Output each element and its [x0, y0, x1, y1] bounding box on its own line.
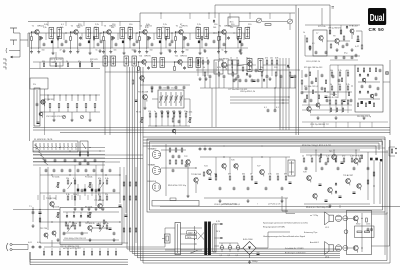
wire drop6 — [87, 195, 89, 200]
capacitor C11 — [213, 40, 216, 44]
label row2b — [90, 59, 98, 61]
ground G-t15 — [144, 106, 147, 110]
switch contact K9 — [67, 143, 69, 149]
label P6 — [136, 112, 141, 114]
capacitor C67 — [45, 169, 48, 173]
junction J21 — [69, 174, 70, 175]
bus wire V3 — [285, 58, 287, 130]
svg-text:0,3: 0,3 — [236, 255, 239, 257]
transistor T28 — [307, 175, 312, 182]
diode D-out1 — [335, 182, 337, 185]
wire left vertical — [29, 33, 31, 141]
wire sp top — [339, 205, 341, 208]
label trafo — [186, 231, 197, 239]
svg-text:T21 BC109: T21 BC109 — [94, 200, 105, 202]
label L26 — [228, 174, 231, 176]
wire bend2 — [286, 198, 295, 214]
resistor R49 — [269, 176, 271, 180]
capacitor C45 — [233, 79, 236, 83]
svg-text:150: 150 — [150, 50, 153, 52]
label topband 8 — [179, 27, 182, 29]
label L43 — [230, 58, 232, 60]
variable capacitor CV2 — [164, 92, 168, 106]
label L59 — [114, 50, 117, 52]
svg-text:1,5k: 1,5k — [43, 27, 47, 29]
svg-text:1k: 1k — [303, 32, 305, 34]
label BF194 — [181, 56, 188, 58]
note line 2 — [263, 227, 285, 229]
transistor T20 — [50, 202, 54, 209]
capacitor C20 — [63, 189, 66, 193]
switch contact K24 — [43, 159, 47, 162]
label afc3 — [303, 32, 315, 45]
wire dec2 gnd bus — [204, 197, 288, 199]
terminal mark — [332, 7, 335, 9]
resistor R36 — [74, 225, 76, 229]
resistor R85 — [99, 252, 100, 256]
wire sw lines1 — [33, 154, 143, 156]
wire bridge out — [250, 248, 269, 258]
label T15 — [138, 92, 149, 94]
svg-text:R71 10k: R71 10k — [318, 26, 325, 28]
wire gtick 1 — [57, 41, 59, 49]
resistor R141 — [336, 108, 337, 112]
transistor T21 — [98, 204, 102, 211]
bus wire V4 — [288, 58, 290, 130]
ground G-tn2 — [89, 238, 92, 242]
resistor R110 — [357, 103, 358, 107]
wire out right — [379, 162, 381, 204]
label P-vol — [85, 177, 92, 179]
capacitor C-x1 — [28, 245, 34, 250]
resistor R39 — [169, 148, 171, 152]
resistor R136 — [306, 95, 307, 99]
junction J39 — [162, 33, 163, 34]
note line 1 — [263, 222, 308, 225]
label T8 — [333, 36, 336, 38]
junction J7 — [65, 32, 66, 33]
voltage crossover — [194, 226, 204, 250]
svg-text:26 V: 26 V — [216, 231, 221, 233]
wire afc bus — [321, 8, 323, 25]
resistor R-out6 — [361, 155, 362, 159]
diode Dr1 — [66, 214, 68, 217]
resistor R-am1 — [43, 100, 44, 104]
label L28 — [250, 174, 252, 176]
svg-text:T46 AC188: T46 AC188 — [352, 154, 361, 157]
capacitor C31 — [219, 187, 222, 191]
wire W71 — [335, 104, 337, 113]
junction J2 — [70, 31, 71, 32]
transistor T8 — [335, 39, 339, 46]
junction J-ps — [32, 209, 33, 210]
svg-text:0,1: 0,1 — [66, 223, 69, 225]
svg-text:15n: 15n — [179, 27, 182, 29]
capacitor C2 — [79, 36, 82, 40]
resistor R43 — [175, 160, 177, 164]
ground G-osc — [249, 74, 252, 78]
transistor T22 — [186, 160, 190, 167]
IF transformer FiB — [111, 56, 115, 66]
transistor T15 — [143, 94, 148, 101]
rail drop r1 — [160, 13, 162, 19]
svg-text:BF195: BF195 — [182, 26, 189, 28]
capacitor C100 — [304, 99, 307, 103]
capacitor C43 — [339, 196, 342, 198]
svg-text:Eingangssignal 1mV/1kHz: Eingangssignal 1mV/1kHz — [263, 227, 285, 229]
svg-text:15n: 15n — [230, 27, 233, 29]
capacitor C85 — [267, 109, 270, 113]
svg-text:1k: 1k — [54, 61, 56, 63]
svg-text:0,3: 0,3 — [220, 255, 223, 257]
capacitor C7 — [65, 40, 68, 44]
ground G-afc2 — [351, 48, 354, 52]
capacitor C97 — [343, 100, 346, 102]
label T23 — [191, 174, 202, 176]
label L61 — [150, 50, 153, 52]
svg-text:1,5k: 1,5k — [60, 27, 64, 29]
capacitor C75 — [109, 169, 112, 173]
IF transformer Fi6 — [128, 28, 133, 39]
wire W19 — [139, 62, 142, 67]
driver transformer — [288, 160, 295, 176]
resistor R21 — [331, 72, 333, 76]
junction J46 — [351, 85, 352, 86]
small network box — [355, 226, 375, 238]
capacitor C58 — [97, 43, 100, 47]
label value2 — [78, 24, 82, 26]
wire W30 — [205, 76, 210, 88]
wire W57 — [173, 117, 175, 126]
label strip text1 — [222, 202, 237, 205]
label dec3 — [304, 67, 322, 69]
wire dec v1 — [308, 67, 310, 107]
capacitor C41 — [319, 184, 322, 186]
svg-text:10n: 10n — [201, 58, 204, 60]
capacitor C13 — [183, 66, 186, 70]
label T31 — [343, 174, 354, 177]
resistor R131 — [201, 37, 202, 41]
pot P6 — [140, 118, 144, 123]
svg-text:C101 25µ R88 560 T17: C101 25µ R88 560 T17 — [310, 124, 329, 126]
label L3 — [231, 67, 233, 69]
wire sw lines3 — [33, 161, 120, 163]
resistor R9 — [49, 104, 51, 108]
resistor R11 — [67, 104, 69, 108]
bundle wire 4 — [135, 67, 340, 256]
resistor R72 — [330, 44, 332, 48]
switch contact K20 — [35, 145, 39, 148]
IF transformer Fi20 — [247, 59, 252, 72]
wire sec1 — [215, 223, 224, 225]
capacitor C106 — [335, 56, 338, 60]
wire antenna to input — [20, 33, 28, 47]
wire tone h2 — [40, 192, 120, 194]
label T7 — [316, 33, 319, 35]
tuning indicator box — [228, 17, 239, 26]
capacitor C76 — [315, 51, 318, 55]
trimmer C56 — [80, 115, 83, 118]
wire mains2 — [44, 240, 60, 247]
capacitor C32 — [233, 187, 236, 191]
wire t15 — [144, 100, 146, 107]
capacitor C-reg — [97, 224, 100, 226]
label topband 4 — [111, 27, 114, 29]
transformer secondary — [213, 224, 216, 252]
svg-text:4,7: 4,7 — [172, 111, 175, 113]
capacitor C103 — [332, 75, 335, 79]
wire gtick 7 — [183, 41, 185, 49]
wire W20 — [175, 62, 178, 67]
resistor R130 — [183, 37, 184, 41]
label T6 — [219, 26, 222, 28]
label meter — [344, 46, 360, 55]
wire drop t40 — [218, 13, 220, 62]
resistor R71 — [149, 113, 151, 117]
wire W8 — [140, 36, 147, 49]
ground G25 — [179, 110, 182, 114]
wire stub 0 — [45, 33, 47, 40]
capacitor C104 — [338, 79, 341, 83]
capacitor C97 — [199, 147, 202, 151]
resistor R23 — [347, 72, 349, 76]
speaker LS2 — [325, 242, 334, 255]
label L46 — [270, 58, 273, 60]
svg-text:R75 2,2k C88 10n D13: R75 2,2k C88 10n D13 — [304, 67, 322, 69]
bus wire V6 — [298, 8, 300, 135]
svg-text:7 5: 7 5 — [29, 206, 32, 208]
switch box S2 — [80, 141, 88, 152]
junction J14 — [59, 147, 60, 148]
resistor R68 — [266, 60, 268, 64]
speaker terminal parts — [389, 147, 397, 156]
capacitor C41 — [255, 69, 258, 73]
label L54 — [184, 111, 187, 113]
junction J44 — [315, 91, 316, 92]
resistor R84 — [91, 252, 92, 256]
output transistor TO2 — [353, 245, 358, 252]
label L6 — [288, 67, 290, 69]
label P-bass — [52, 177, 59, 179]
wire drop5 — [79, 195, 81, 200]
resistor R59 — [359, 158, 361, 162]
junction J34 — [72, 33, 73, 34]
wire W36 — [215, 157, 217, 174]
wire bend1 — [282, 196, 288, 211]
wire afc v2 — [330, 25, 341, 34]
capacitor C10 — [171, 40, 174, 44]
capacitor C-x2 — [39, 245, 42, 249]
capacitor Ce4 — [198, 41, 200, 44]
junction J28 — [119, 221, 120, 222]
label value10 — [214, 24, 218, 26]
antenna dipole symbol — [6, 28, 20, 58]
resistor R-out5 — [320, 154, 321, 158]
resistor R114 — [315, 78, 316, 82]
resistor R46 — [229, 176, 231, 180]
junction J37 — [126, 33, 127, 34]
wire out v2 — [373, 160, 375, 204]
capacitor C98 — [204, 147, 207, 151]
wire W53 — [149, 117, 151, 126]
label topband 6 — [145, 27, 149, 29]
label Si3 — [236, 255, 239, 257]
switch contact S5 — [71, 95, 73, 101]
junction J22 — [69, 221, 70, 222]
label Treg3 — [85, 223, 95, 225]
capacitor C72 — [346, 43, 349, 47]
capacitor C21 — [81, 189, 84, 193]
svg-text:33k: 33k — [284, 174, 287, 176]
label reg — [64, 238, 86, 240]
label L19 — [98, 194, 101, 196]
label L34 — [318, 156, 321, 158]
svg-text:Dual: Dual — [370, 12, 385, 24]
capacitor C12 — [147, 66, 150, 70]
rail drop r5 — [249, 13, 251, 19]
svg-text:0,1: 0,1 — [264, 107, 267, 109]
svg-text:Spannungen gemessen mit Röhren: Spannungen gemessen mit Röhrenvoltmeter … — [263, 222, 308, 225]
capacitor C49 — [257, 79, 260, 83]
wire W32 — [233, 76, 238, 88]
ground G3 — [69, 50, 72, 54]
label L2 — [217, 67, 221, 69]
transistor T43 — [370, 94, 374, 99]
resistor R78 — [43, 252, 44, 256]
svg-text:120: 120 — [148, 111, 151, 113]
svg-text:10k: 10k — [338, 84, 341, 86]
output transistor TO1 — [353, 216, 358, 223]
amp box outer — [147, 139, 385, 212]
capacitor C24 — [63, 232, 66, 236]
capacitor C26 — [113, 232, 116, 236]
resistor R111 — [365, 103, 366, 107]
ground G10 — [181, 50, 184, 54]
wire W7 — [140, 32, 143, 37]
wire b2 drop3 — [274, 88, 276, 110]
capacitor C83 — [379, 69, 382, 73]
ground G40 — [134, 49, 137, 53]
junction J13 — [174, 61, 175, 62]
svg-text:5n: 5n — [78, 50, 80, 52]
junction J40 — [180, 33, 181, 34]
switch contact K8 — [63, 143, 65, 149]
label L48 — [148, 111, 151, 113]
resistor R6 — [218, 37, 220, 41]
junction J12 — [138, 61, 139, 62]
transistor T2 — [74, 30, 78, 37]
label reg out — [63, 248, 81, 250]
capacitor C95 — [79, 162, 82, 166]
wire tone v2 — [47, 167, 49, 230]
resistor R57 — [343, 158, 345, 162]
wire pre v — [165, 144, 167, 196]
label T16 — [303, 102, 307, 104]
resistor R17 — [232, 72, 234, 76]
wire b2 drop2 — [215, 62, 217, 127]
transistor T-reg2 — [52, 231, 56, 237]
junction J-tr — [196, 234, 197, 245]
capacitor C-tn2 — [125, 215, 128, 217]
ground G4 — [76, 50, 79, 54]
resistor R92 — [129, 196, 131, 200]
terminal tab — [170, 198, 176, 201]
wire W45 — [197, 64, 199, 76]
wire W11 — [219, 32, 222, 37]
label topband 3 — [94, 27, 97, 29]
wire reg mid — [63, 228, 108, 233]
bus stub H3 — [230, 102, 289, 104]
resistor R118 — [43, 63, 44, 67]
wire sp mid — [348, 218, 353, 248]
rail drop r2 — [189, 13, 191, 19]
label L67 — [42, 61, 45, 63]
label BF324 — [38, 26, 45, 28]
label BF195 — [225, 26, 232, 28]
wire vert main2 — [109, 55, 111, 135]
capacitor C92 — [74, 159, 77, 163]
label decb — [328, 97, 338, 99]
switch contact S1 — [47, 95, 49, 101]
wire W79 — [371, 122, 373, 128]
junction J23 — [87, 174, 88, 175]
resistor R19 — [275, 72, 277, 76]
label B2 — [148, 163, 156, 166]
junction J-r2 — [89, 239, 90, 240]
svg-text:47n: 47n — [78, 61, 81, 63]
capacitor C46 — [239, 79, 242, 83]
diode D30 — [263, 78, 265, 81]
Dual logo text — [370, 12, 385, 24]
svg-text:5,6k: 5,6k — [44, 24, 48, 26]
bundle wire 1 — [127, 67, 340, 249]
resistor R54 — [319, 158, 321, 162]
junction J15 — [69, 150, 70, 151]
svg-text:100: 100 — [77, 27, 80, 29]
DIN socket B3 — [152, 183, 160, 191]
ground G31 — [235, 77, 238, 81]
mains connector — [162, 234, 170, 243]
box afc filter — [313, 30, 327, 56]
junction J30 — [282, 99, 283, 100]
resistor R106 — [357, 68, 358, 72]
supply rail left — [28, 21, 140, 23]
label value11 — [231, 24, 235, 26]
svg-text:2,2k: 2,2k — [163, 24, 167, 26]
IF transformer Fi152 — [152, 58, 156, 68]
resistor R18 — [261, 72, 263, 76]
resistor R4 — [139, 37, 141, 41]
resistor R112 — [373, 103, 374, 107]
resistor R134 — [79, 152, 81, 156]
label L31 — [284, 174, 287, 176]
label L71 — [90, 61, 93, 63]
label L60 — [132, 50, 135, 52]
wire W48 — [231, 64, 233, 76]
transistor T3 — [107, 30, 111, 37]
wire drop4 — [71, 195, 73, 200]
resistor R-out2 — [367, 180, 369, 184]
wire gtick 5 — [147, 41, 149, 49]
capacitor C-sp1 — [367, 228, 370, 232]
diode D-out2 — [335, 190, 337, 193]
resistor R13 — [85, 104, 87, 108]
transistor T42 — [362, 78, 366, 83]
resistor R133 — [237, 37, 238, 41]
pot arrow 4 — [100, 226, 105, 233]
wire am bus2 — [40, 111, 100, 113]
resistor R28 — [74, 180, 76, 184]
